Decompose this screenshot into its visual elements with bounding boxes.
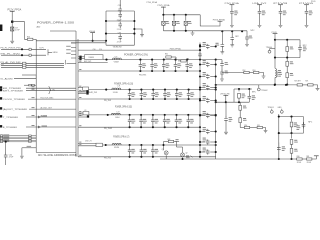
transistor Q2 xyxy=(181,153,185,157)
pin number xyxy=(79,86,81,87)
bus xyxy=(77,39,79,157)
wire xyxy=(162,7,164,15)
junction xyxy=(92,40,94,42)
svg-text:TP6002: TP6002 xyxy=(261,90,267,92)
junction xyxy=(199,130,201,132)
ladder cap on rail xyxy=(198,52,202,57)
rung xyxy=(106,20,134,22)
wire xyxy=(182,157,184,159)
offpage glyph xyxy=(0,125,2,127)
connector pin xyxy=(0,138,2,140)
svg-text:I0_ALM0: I0_ALM0 xyxy=(1,78,14,81)
wire xyxy=(185,15,187,21)
component box U30 xyxy=(85,55,104,60)
component xyxy=(239,102,241,105)
wire xyxy=(78,92,88,94)
svg-text:E4R_3V3: E4R_3V3 xyxy=(89,92,97,94)
capacitor NPC xyxy=(230,9,234,15)
pin box xyxy=(29,140,32,141)
capacitor NPC xyxy=(162,21,165,25)
resistor R62 xyxy=(181,60,186,62)
svg-text:C99: C99 xyxy=(118,11,121,13)
junction xyxy=(278,116,280,118)
junction xyxy=(199,44,201,46)
wire xyxy=(35,75,37,79)
junction xyxy=(286,39,288,41)
wire xyxy=(303,84,308,86)
junction xyxy=(105,20,107,22)
svg-text:R81: R81 xyxy=(306,156,309,158)
rail xyxy=(133,11,135,45)
pin box xyxy=(29,48,31,50)
wire xyxy=(306,5,308,9)
pin label xyxy=(3,135,9,138)
svg-text:4.7UF: 4.7UF xyxy=(15,30,20,32)
junction xyxy=(181,158,183,160)
junction xyxy=(105,33,107,35)
brace rows xyxy=(64,60,67,65)
wire xyxy=(221,60,223,62)
junction xyxy=(274,84,276,86)
pin number xyxy=(79,125,81,126)
brace xyxy=(49,86,52,93)
svg-text:P2V5_FPGA: P2V5_FPGA xyxy=(158,4,171,7)
junction xyxy=(199,45,201,47)
wire xyxy=(36,40,106,42)
svg-text:P1V0: P1V0 xyxy=(311,1,315,3)
svg-text:3.3UH: 3.3UH xyxy=(113,92,119,94)
junction xyxy=(86,90,88,92)
wire xyxy=(78,145,96,147)
wire xyxy=(278,152,280,159)
capacitor NPC xyxy=(305,9,309,15)
wire xyxy=(11,23,13,41)
pin number xyxy=(32,115,35,116)
pin number xyxy=(79,111,81,112)
pin box xyxy=(29,141,32,142)
junction xyxy=(286,84,288,86)
wire xyxy=(222,72,244,74)
junction xyxy=(87,115,89,117)
pin number xyxy=(79,155,81,156)
resistor xyxy=(297,84,302,86)
ladder cap xyxy=(200,115,205,117)
pin stub xyxy=(71,50,76,52)
junction xyxy=(173,14,175,16)
wire xyxy=(78,143,96,145)
wire xyxy=(78,61,108,63)
pin name xyxy=(66,45,71,48)
rung xyxy=(106,33,134,35)
wire xyxy=(275,39,300,41)
pin number xyxy=(79,142,81,143)
capacitor xyxy=(176,90,178,92)
ladder cap xyxy=(200,141,205,143)
pin name xyxy=(66,48,71,51)
junction xyxy=(274,57,276,59)
capacitor xyxy=(140,115,142,118)
label xyxy=(203,148,207,153)
label xyxy=(203,60,207,65)
wire xyxy=(259,15,261,25)
wire xyxy=(78,116,88,118)
wire xyxy=(162,25,164,31)
svg-text:C90: C90 xyxy=(93,49,96,51)
svg-text:VSUM 2R2: VSUM 2R2 xyxy=(113,46,122,48)
junction xyxy=(105,144,107,146)
pin number xyxy=(32,89,35,90)
junction xyxy=(11,21,13,23)
wire xyxy=(78,112,83,114)
wire xyxy=(216,101,250,103)
ladder cap xyxy=(200,46,205,48)
junction xyxy=(199,75,201,77)
svg-text:T_TPS6848: T_TPS6848 xyxy=(3,117,19,119)
label xyxy=(276,72,278,78)
ground xyxy=(230,45,234,47)
wire xyxy=(231,5,233,9)
ladder cap xyxy=(200,87,205,89)
wire xyxy=(221,76,223,78)
wire xyxy=(26,90,76,92)
wire xyxy=(278,114,280,159)
svg-text:R70 4R7: R70 4R7 xyxy=(294,81,300,83)
inductor L70 xyxy=(112,58,121,60)
junction xyxy=(162,14,164,16)
bus xyxy=(75,31,77,157)
net arrow xyxy=(38,116,40,118)
ground xyxy=(224,132,228,134)
wire xyxy=(78,114,83,116)
wire xyxy=(192,31,194,33)
junction xyxy=(175,114,177,116)
svg-text:GND: GND xyxy=(278,107,283,109)
svg-text:VSUM: VSUM xyxy=(114,62,119,64)
ladder cap xyxy=(200,151,205,153)
wire xyxy=(29,108,76,110)
wire row2 xyxy=(1,54,46,56)
svg-text:NPC: NPC xyxy=(251,30,256,32)
svg-text:I2C SLAVE ADDRESS 0X6B: I2C SLAVE ADDRESS 0X6B xyxy=(38,153,77,157)
svg-text:E4R_3V3: E4R_3V3 xyxy=(84,61,91,63)
wire xyxy=(299,50,301,58)
wire xyxy=(233,89,235,102)
junction xyxy=(129,89,131,91)
pin number xyxy=(79,144,81,145)
capacitor xyxy=(221,42,225,48)
wire xyxy=(234,88,252,90)
connector pin xyxy=(0,135,2,137)
svg-text:R71: R71 xyxy=(305,81,308,83)
svg-text:R80: R80 xyxy=(297,156,300,158)
svg-text:C10: C10 xyxy=(99,49,102,51)
junction xyxy=(79,56,81,58)
pin number xyxy=(32,86,35,87)
label xyxy=(203,138,207,143)
wire xyxy=(313,85,317,88)
pin box xyxy=(29,138,32,139)
resistor R63 xyxy=(168,140,173,142)
svg-text:VSUM: VSUM xyxy=(89,57,95,59)
wire xyxy=(238,98,240,102)
svg-text:C98: C98 xyxy=(118,5,121,7)
rail A xyxy=(103,59,216,61)
junction xyxy=(199,141,201,143)
svg-text:GND0: GND0 xyxy=(53,52,58,54)
wire xyxy=(5,142,7,153)
net name xyxy=(42,116,48,117)
junction xyxy=(105,40,107,42)
capacitor xyxy=(248,89,250,94)
junction xyxy=(186,59,188,61)
component xyxy=(290,148,293,153)
junction xyxy=(107,114,109,116)
return D xyxy=(78,156,216,158)
label xyxy=(203,111,207,116)
wire xyxy=(239,123,241,128)
pin number xyxy=(79,69,81,70)
junction xyxy=(5,141,7,143)
wire xyxy=(221,31,223,42)
wire xyxy=(171,56,176,58)
inductor L72 xyxy=(111,113,120,115)
return C xyxy=(78,126,200,128)
junction xyxy=(199,99,201,101)
wire xyxy=(286,52,288,58)
pin label xyxy=(3,138,9,141)
svg-text:POWER_OPR(+2.5V): POWER_OPR(+2.5V) xyxy=(124,53,148,56)
wire xyxy=(160,158,216,160)
wire xyxy=(250,127,257,129)
label xyxy=(71,43,76,44)
wire xyxy=(119,10,121,12)
pin box xyxy=(29,135,32,136)
junction xyxy=(174,59,176,61)
offpage glyph xyxy=(0,89,2,91)
pin box xyxy=(23,62,26,64)
pin box xyxy=(29,84,32,86)
wire row1 xyxy=(1,48,46,50)
svg-text:NPC: NPC xyxy=(252,92,257,94)
junction xyxy=(163,59,165,61)
capacitor xyxy=(152,145,154,148)
junction xyxy=(215,101,217,103)
svg-text:C96: C96 xyxy=(118,33,121,35)
pin stub xyxy=(71,47,76,49)
wire xyxy=(78,56,85,58)
wire xyxy=(28,98,76,100)
wire xyxy=(12,22,27,40)
junction xyxy=(164,89,166,91)
pin number xyxy=(79,91,81,92)
junction xyxy=(152,114,154,116)
wire xyxy=(163,30,247,32)
junction xyxy=(162,144,164,146)
wire xyxy=(279,116,304,118)
inductor L8 xyxy=(275,69,277,78)
pin number xyxy=(79,115,81,116)
wire row5 xyxy=(1,66,64,68)
pin number xyxy=(32,107,35,108)
svg-text:POWER_OPR(+0.1B2): POWER_OPR(+0.1B2) xyxy=(115,106,132,109)
ground xyxy=(230,25,234,27)
pin number xyxy=(79,61,81,62)
component box xyxy=(96,143,103,146)
capacitor xyxy=(299,40,301,47)
svg-text:L71: L71 xyxy=(118,85,121,87)
label xyxy=(203,83,207,88)
component xyxy=(286,73,289,78)
junction xyxy=(133,28,135,30)
svg-text:4.7UF: 4.7UF xyxy=(9,156,14,158)
capacitor C40 xyxy=(4,153,8,159)
wire xyxy=(3,138,36,140)
junction xyxy=(221,30,223,32)
pin box xyxy=(23,66,26,68)
junction xyxy=(199,49,201,51)
wire xyxy=(36,151,76,153)
wire xyxy=(291,153,293,159)
component box xyxy=(83,87,89,90)
wire xyxy=(119,0,121,7)
wire xyxy=(33,38,36,40)
svg-text:ALOCK_OUT: ALOCK_OUT xyxy=(41,106,53,109)
junction xyxy=(199,89,201,91)
capacitor C99 xyxy=(118,12,122,18)
svg-text:NPC: NPC xyxy=(308,121,313,123)
wire xyxy=(231,31,233,35)
edge connector mark xyxy=(0,25,2,32)
resistor R10 xyxy=(28,38,33,40)
ground xyxy=(305,25,309,27)
wire tick xyxy=(191,156,193,158)
wire xyxy=(92,33,94,41)
wire xyxy=(274,78,276,85)
label xyxy=(297,125,301,130)
wire xyxy=(24,84,36,86)
svg-text:C97: C97 xyxy=(118,20,121,22)
wire xyxy=(22,74,36,76)
label xyxy=(186,155,190,158)
rung xyxy=(106,44,134,46)
junction xyxy=(199,114,201,116)
wire xyxy=(163,142,165,151)
capacitor NPC xyxy=(184,21,187,25)
ground xyxy=(316,88,320,90)
wire xyxy=(231,15,233,25)
capacitor xyxy=(164,90,166,92)
wire xyxy=(250,72,254,74)
wire xyxy=(279,132,304,134)
capacitor C98 feed xyxy=(118,7,122,13)
svg-text:POWER_OPRH-1.S00: POWER_OPRH-1.S00 xyxy=(37,20,75,24)
wire xyxy=(22,147,36,149)
svg-text:TP6001: TP6001 xyxy=(268,107,274,109)
wire xyxy=(259,5,261,9)
junction xyxy=(241,30,243,32)
ground xyxy=(191,33,195,35)
svg-text:R10: R10 xyxy=(27,37,30,39)
capacitor xyxy=(220,61,224,67)
ladder rail xyxy=(199,43,201,157)
wire row3 xyxy=(1,62,64,64)
wire xyxy=(3,136,36,138)
capacitor C96 xyxy=(118,34,122,40)
capacitor xyxy=(188,90,190,92)
rail B xyxy=(89,89,216,91)
capacitor xyxy=(187,115,189,118)
return A xyxy=(78,70,200,72)
pin number xyxy=(32,125,35,126)
connector pin xyxy=(0,136,2,138)
capacitor xyxy=(163,60,165,63)
capacitor xyxy=(225,102,227,116)
wire xyxy=(286,40,288,47)
wire xyxy=(216,59,222,61)
resistor xyxy=(286,47,289,52)
wire xyxy=(67,62,77,64)
wire xyxy=(239,110,241,117)
junction xyxy=(140,144,142,146)
pin box xyxy=(29,137,32,138)
capacitor NPC xyxy=(172,21,175,25)
resistor R80 xyxy=(297,158,302,160)
svg-text:L72: L72 xyxy=(117,111,120,113)
inductor L73 xyxy=(112,143,121,145)
wire xyxy=(259,73,263,76)
svg-text:R60: R60 xyxy=(165,54,168,56)
wire xyxy=(280,15,282,25)
component C730 xyxy=(238,89,240,91)
junction xyxy=(129,114,131,116)
svg-text:C92 L73: C92 L73 xyxy=(85,141,91,143)
junction xyxy=(188,89,190,91)
wire xyxy=(246,41,248,44)
bus merge xyxy=(47,49,49,55)
component box xyxy=(83,112,89,115)
junction xyxy=(152,144,154,146)
capacitor xyxy=(175,60,177,63)
pin label xyxy=(3,137,9,140)
ground xyxy=(245,44,249,46)
junction xyxy=(278,158,280,160)
wire xyxy=(246,31,248,35)
svg-text:VSUM: VSUM xyxy=(114,147,119,149)
pin label xyxy=(3,140,9,143)
component xyxy=(239,118,242,123)
label xyxy=(294,123,298,128)
capacitor xyxy=(176,115,178,118)
pin number xyxy=(32,97,35,98)
junction xyxy=(274,84,276,86)
svg-text:PB_1V05: PB_1V05 xyxy=(104,128,112,130)
capacitor xyxy=(151,60,153,63)
wire xyxy=(26,126,76,128)
ladder cap xyxy=(200,64,205,66)
svg-text:C3: C3 xyxy=(84,110,86,112)
label xyxy=(203,96,207,101)
svg-text:POWER_OPR(+0.17): POWER_OPR(+0.17) xyxy=(113,136,129,139)
connector pin xyxy=(0,141,2,143)
ground xyxy=(140,35,144,37)
junction xyxy=(140,89,142,91)
svg-text:P3V3_FPGA: P3V3_FPGA xyxy=(170,47,182,50)
junction xyxy=(105,59,107,61)
net arrow xyxy=(38,126,40,128)
junction xyxy=(151,59,153,61)
junction xyxy=(199,86,201,88)
ground xyxy=(20,156,24,158)
